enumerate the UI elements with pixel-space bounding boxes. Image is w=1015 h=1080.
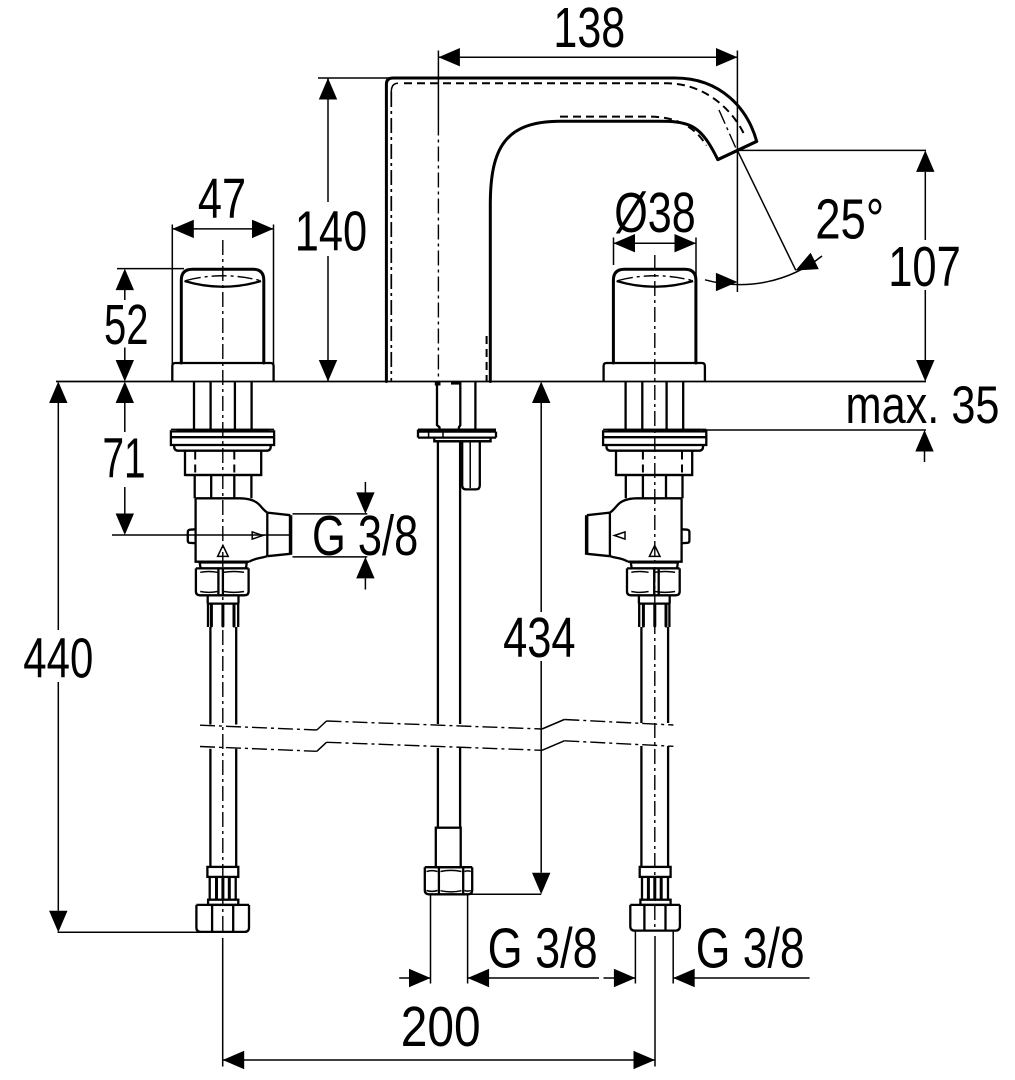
svg-text:71: 71	[103, 426, 146, 490]
right valve centerline	[654, 255, 656, 930]
left hose end nut	[196, 905, 249, 932]
right hose upper run	[641, 627, 668, 723]
left valve seal ring	[171, 428, 274, 430]
left hose crimp ribs bottom	[210, 877, 236, 900]
svg-text:440: 440	[23, 627, 93, 691]
left handle cap seam arc	[185, 281, 262, 287]
spout inner right wall dashed line near deck	[486, 336, 488, 381]
spout second tube edge below deck	[474, 382, 476, 430]
left valve centerline	[222, 240, 224, 932]
svg-text:138: 138	[553, 0, 625, 60]
right handle cap	[613, 269, 696, 363]
deck / mounting surface line	[56, 381, 926, 383]
left valve flow arrow right	[252, 532, 263, 539]
dimension 71 extension line	[112, 534, 292, 536]
spout fixing stub	[462, 441, 480, 489]
left valve compression nut	[196, 568, 249, 595]
25 degree water line	[737, 150, 795, 270]
right handle cap top dash-dot arc	[618, 276, 692, 281]
dimension 107 line	[924, 172, 926, 360]
left handle cap top dash-dot arc	[186, 276, 260, 281]
right valve hose crimp ribs	[639, 604, 669, 627]
dimension 434 line	[540, 403, 542, 873]
right valve hose adapter band	[639, 595, 670, 603]
svg-text:max. 35: max. 35	[846, 376, 1000, 435]
dimension 107 top reference line	[738, 149, 926, 151]
svg-text:G 3/8: G 3/8	[488, 916, 598, 980]
break line lower	[200, 747, 317, 752]
dimension 440 line	[57, 403, 59, 911]
counter underside line (max.35 lower reference)	[702, 429, 926, 431]
dimension G38 valve extension lines	[293, 514, 368, 557]
25 degree arc	[705, 256, 822, 285]
right valve flange step	[607, 445, 704, 451]
left valve flange nut	[171, 431, 274, 445]
left hose ferrule	[207, 867, 238, 877]
svg-text:47: 47	[198, 167, 246, 231]
center hose end nut	[425, 867, 472, 894]
center hose upper run	[438, 441, 460, 724]
dimension 200 extension lines	[223, 936, 655, 1067]
right valve seal ring	[603, 428, 706, 430]
right valve body	[610, 498, 682, 561]
svg-text:107: 107	[888, 235, 961, 299]
left valve flange step	[174, 445, 271, 451]
right handle cap seam arc	[617, 281, 694, 287]
dimension 140 extension line	[318, 77, 390, 79]
left valve compression washer	[200, 563, 247, 569]
left valve hose adapter band	[208, 595, 239, 603]
left valve hidden thread lines	[195, 452, 234, 475]
right hose crimp ribs bottom	[642, 877, 668, 900]
left handle base	[172, 363, 273, 382]
left valve hose crimp ribs	[208, 604, 238, 627]
dimension D38 line	[614, 242, 697, 244]
right valve neck	[626, 475, 683, 498]
dimension 52 line	[124, 290, 126, 360]
right hose end washer	[640, 900, 670, 905]
center hose lower run	[438, 748, 460, 828]
dimension 138 line	[438, 56, 737, 58]
svg-text:25°: 25°	[815, 188, 884, 252]
left valve neck	[195, 475, 252, 498]
spout outlet end face	[718, 141, 757, 159]
left valve flow arrow up	[218, 545, 229, 556]
right valve flange nut	[603, 431, 706, 445]
right handle base	[604, 363, 705, 382]
left valve hex shadow bar	[289, 515, 293, 555]
spout mounting washer	[418, 430, 496, 438]
spout washer lip	[434, 438, 490, 442]
dimension 47 extension lines	[172, 225, 273, 378]
center hose ferrule	[436, 828, 461, 868]
right valve hex shadow bar	[585, 515, 589, 555]
left valve thread block	[185, 451, 261, 475]
dimension 138 right extension / 25deg vertical reference	[736, 51, 738, 293]
right hose ferrule	[640, 867, 671, 877]
svg-text:140: 140	[295, 199, 367, 263]
spout inner left wall line	[391, 83, 398, 92]
spout inner lower wall dashed line	[560, 117, 707, 146]
dimension 71 line	[124, 403, 126, 514]
left handle cap	[181, 269, 263, 363]
spout outer contour	[386, 78, 756, 382]
dimension G38 center extension lines	[431, 895, 468, 984]
dimension D38 extension lines	[614, 238, 697, 282]
right valve flow arrow up	[649, 545, 660, 556]
spout centerline	[437, 51, 439, 121]
dimension 140 line	[327, 78, 329, 382]
dimension 440 bottom reference line	[58, 931, 203, 933]
dimension 47 line	[172, 228, 273, 230]
svg-text:52: 52	[104, 293, 149, 357]
svg-text:200: 200	[401, 995, 481, 1059]
right hose end nut	[630, 905, 680, 931]
right valve hidden thread lines	[643, 452, 682, 475]
left hose end washer	[208, 900, 238, 905]
spout inner top wall dashed line	[404, 83, 744, 133]
right valve hex outlet	[587, 513, 610, 557]
dimension max35 arrow	[915, 430, 933, 452]
left valve hex outlet	[267, 513, 290, 557]
spout outlet axis dash-dot	[719, 110, 737, 150]
dimension 52 extension line	[117, 268, 184, 270]
dimension G38 right line	[604, 977, 810, 979]
spout bottom seal marks	[435, 382, 441, 386]
right valve side tab	[682, 529, 690, 543]
left valve shank	[194, 382, 252, 430]
dimension 434 bottom reference line	[468, 893, 541, 895]
dimension G38 center line	[399, 977, 599, 979]
right valve compression washer	[631, 563, 678, 569]
right valve compression nut	[627, 568, 680, 595]
svg-text:Ø38: Ø38	[614, 181, 696, 245]
dimension G38 valve line	[364, 482, 366, 590]
left valve body	[196, 498, 268, 561]
left hose lower run	[210, 749, 236, 867]
dimension G38 right extension lines	[635, 931, 673, 984]
svg-text:G 3/8: G 3/8	[312, 504, 418, 568]
right valve thread block	[616, 451, 692, 475]
right valve flow arrow left	[614, 532, 625, 539]
dimension 200 line	[223, 1059, 655, 1061]
right valve shank	[626, 382, 684, 430]
spout shank tube below deck	[437, 382, 440, 430]
break line upper	[200, 725, 317, 730]
left valve side tab	[188, 529, 196, 543]
svg-text:434: 434	[503, 606, 575, 670]
svg-text:G 3/8: G 3/8	[696, 916, 805, 980]
left hose upper run	[210, 627, 236, 725]
right hose lower run	[641, 746, 668, 867]
